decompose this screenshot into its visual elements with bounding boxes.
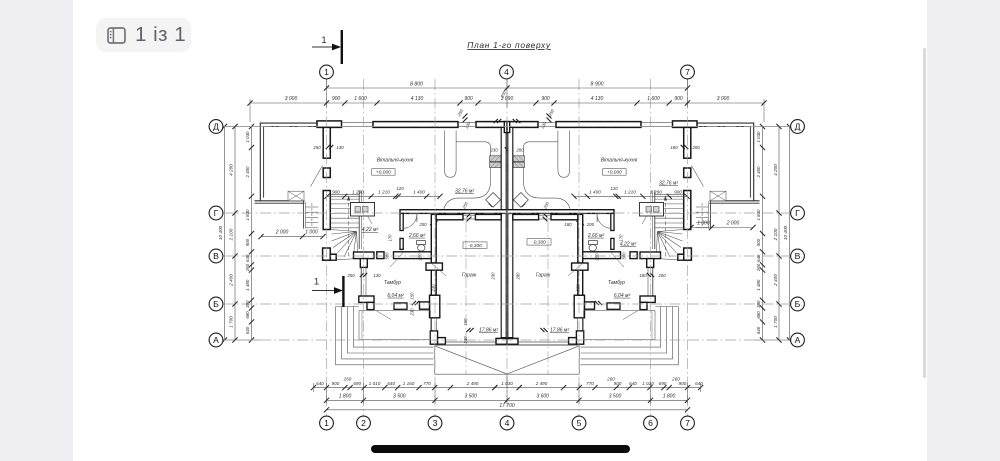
svg-text:6,04 м²: 6,04 м² <box>387 293 404 299</box>
svg-text:4: 4 <box>505 418 510 428</box>
svg-text:2 100: 2 100 <box>773 228 778 241</box>
svg-text:4 200: 4 200 <box>773 164 778 176</box>
svg-text:Г: Г <box>214 208 219 218</box>
svg-text:380: 380 <box>756 300 761 308</box>
svg-text:Гараж: Гараж <box>536 273 551 279</box>
svg-text:7: 7 <box>685 67 690 77</box>
svg-text:6,04 м²: 6,04 м² <box>614 293 631 299</box>
svg-text:4,22 м²: 4,22 м² <box>362 227 379 233</box>
svg-text:-0,300: -0,300 <box>532 240 546 246</box>
svg-text:Гараж: Гараж <box>462 273 477 279</box>
svg-text:250: 250 <box>547 108 555 118</box>
svg-text:А: А <box>795 335 801 345</box>
svg-text:640: 640 <box>387 381 395 386</box>
svg-text:250: 250 <box>456 108 464 118</box>
svg-text:32,76 м²: 32,76 м² <box>455 189 474 195</box>
svg-text:680: 680 <box>756 311 761 319</box>
svg-text:Вітальня-кухня: Вітальня-кухня <box>377 158 414 164</box>
svg-text:3 500: 3 500 <box>609 393 622 399</box>
svg-text:Г: Г <box>795 208 800 218</box>
svg-text:6: 6 <box>648 418 653 428</box>
svg-text:2 400: 2 400 <box>773 274 778 287</box>
svg-text:1: 1 <box>321 35 326 46</box>
svg-text:280: 280 <box>516 272 521 281</box>
svg-text:380: 380 <box>245 300 250 308</box>
svg-text:В: В <box>213 251 219 261</box>
svg-text:640: 640 <box>629 381 637 386</box>
svg-text:Тамбур: Тамбур <box>608 280 625 286</box>
svg-text:900: 900 <box>245 238 250 246</box>
svg-text:1 800: 1 800 <box>663 393 676 399</box>
svg-text:120: 120 <box>396 186 404 191</box>
svg-text:230: 230 <box>463 336 468 345</box>
svg-text:1 400: 1 400 <box>413 189 425 194</box>
svg-text:130: 130 <box>373 273 381 278</box>
svg-text:250: 250 <box>346 273 355 278</box>
svg-text:8 900: 8 900 <box>591 81 604 87</box>
svg-text:250: 250 <box>418 222 427 227</box>
svg-text:1 600: 1 600 <box>354 96 367 102</box>
svg-text:1 000: 1 000 <box>697 221 710 227</box>
svg-text:1 480: 1 480 <box>245 279 250 291</box>
svg-text:120: 120 <box>610 186 618 191</box>
svg-text:280: 280 <box>515 148 524 153</box>
svg-text:900: 900 <box>614 381 622 386</box>
svg-text:2 400: 2 400 <box>756 166 761 179</box>
svg-text:3 000: 3 000 <box>285 96 298 102</box>
svg-text:230: 230 <box>576 284 581 293</box>
svg-text:-0,300: -0,300 <box>468 243 482 249</box>
svg-text:130: 130 <box>464 120 472 129</box>
svg-text:900: 900 <box>332 381 340 386</box>
svg-text:2,66 м²: 2,66 м² <box>587 233 605 239</box>
svg-text:1 290: 1 290 <box>352 189 364 194</box>
svg-text:1 600: 1 600 <box>647 96 660 102</box>
svg-text:200: 200 <box>691 145 700 150</box>
svg-text:150: 150 <box>410 292 415 300</box>
svg-text:1 030: 1 030 <box>756 131 761 143</box>
svg-text:250: 250 <box>595 253 600 262</box>
svg-text:2 400: 2 400 <box>229 274 234 287</box>
svg-text:План 1-го поверху: План 1-го поверху <box>467 40 551 50</box>
svg-text:130: 130 <box>540 120 548 129</box>
svg-text:2 100: 2 100 <box>229 228 234 241</box>
svg-text:640: 640 <box>316 381 324 386</box>
svg-text:3 500: 3 500 <box>464 393 477 399</box>
svg-text:В: В <box>795 251 801 261</box>
svg-text:900: 900 <box>332 189 340 194</box>
svg-text:180: 180 <box>670 145 678 150</box>
svg-text:690: 690 <box>659 381 667 386</box>
svg-text:260: 260 <box>245 263 250 272</box>
svg-text:Д: Д <box>795 122 801 132</box>
svg-text:А: А <box>213 335 219 345</box>
svg-text:1 000: 1 000 <box>305 230 318 236</box>
svg-text:130: 130 <box>336 145 344 150</box>
svg-text:900: 900 <box>674 189 682 194</box>
svg-text:7: 7 <box>685 418 690 428</box>
svg-text:2 400: 2 400 <box>245 166 250 179</box>
svg-text:10 400: 10 400 <box>218 225 223 240</box>
svg-text:230: 230 <box>491 272 496 281</box>
svg-text:Вітальня-кухня: Вітальня-кухня <box>601 158 638 164</box>
svg-text:1 700: 1 700 <box>229 316 234 328</box>
svg-text:8 800: 8 800 <box>410 81 423 87</box>
svg-text:3 600: 3 600 <box>536 393 549 399</box>
svg-text:3 000: 3 000 <box>717 96 730 102</box>
svg-text:32,76 м²: 32,76 м² <box>659 181 678 187</box>
svg-text:Б: Б <box>795 299 801 309</box>
svg-text:17 700: 17 700 <box>499 403 515 409</box>
svg-text:500: 500 <box>622 252 627 260</box>
svg-text:250: 250 <box>418 253 423 262</box>
svg-text:180: 180 <box>639 273 647 278</box>
svg-text:640: 640 <box>756 254 761 262</box>
svg-text:4 130: 4 130 <box>591 96 604 102</box>
svg-text:170: 170 <box>619 234 624 242</box>
svg-text:2: 2 <box>361 418 366 428</box>
svg-text:1 010: 1 010 <box>642 381 654 386</box>
svg-text:5: 5 <box>577 418 582 428</box>
svg-text:3: 3 <box>433 418 438 428</box>
svg-text:640: 640 <box>756 326 761 334</box>
svg-text:Тамбур: Тамбур <box>384 280 401 286</box>
svg-text:900: 900 <box>464 96 473 102</box>
svg-text:640: 640 <box>245 326 250 334</box>
svg-text:1 030: 1 030 <box>245 131 250 143</box>
svg-text:Д: Д <box>213 122 219 132</box>
svg-text:Б: Б <box>213 299 219 309</box>
svg-text:180: 180 <box>564 222 572 227</box>
svg-text:1 290: 1 290 <box>650 189 662 194</box>
svg-text:2 490: 2 490 <box>535 381 548 386</box>
svg-text:+0,000: +0,000 <box>607 170 622 176</box>
svg-text:1 030: 1 030 <box>501 381 513 386</box>
svg-text:1 800: 1 800 <box>339 393 352 399</box>
svg-text:1: 1 <box>314 277 319 288</box>
svg-text:4,22 м²: 4,22 м² <box>620 242 637 248</box>
svg-text:3 500: 3 500 <box>393 393 406 399</box>
svg-text:17,86 м²: 17,86 м² <box>550 328 569 334</box>
svg-text:200: 200 <box>657 273 666 278</box>
svg-text:900: 900 <box>541 96 550 102</box>
svg-text:+0,000: +0,000 <box>376 170 391 176</box>
svg-text:1 480: 1 480 <box>756 279 761 291</box>
svg-text:150: 150 <box>463 318 468 326</box>
svg-text:900: 900 <box>679 381 687 386</box>
svg-text:1 210: 1 210 <box>624 189 636 194</box>
svg-text:1 830: 1 830 <box>756 209 761 221</box>
svg-text:2 490: 2 490 <box>466 381 479 386</box>
svg-text:900: 900 <box>332 96 341 102</box>
svg-text:260: 260 <box>756 263 761 272</box>
svg-text:10 400: 10 400 <box>783 225 788 240</box>
svg-text:4 130: 4 130 <box>411 96 424 102</box>
svg-text:4: 4 <box>504 67 509 77</box>
svg-text:2 000: 2 000 <box>726 221 740 227</box>
svg-text:17,86 м²: 17,86 м² <box>479 328 498 334</box>
svg-text:640: 640 <box>695 381 703 386</box>
svg-text:1 700: 1 700 <box>773 316 778 328</box>
svg-text:250: 250 <box>312 145 321 150</box>
svg-text:900: 900 <box>756 238 761 246</box>
svg-text:260: 260 <box>343 377 352 382</box>
svg-text:1 400: 1 400 <box>589 189 601 194</box>
svg-text:640: 640 <box>245 254 250 262</box>
svg-text:2,66 м²: 2,66 м² <box>408 233 426 239</box>
svg-text:680: 680 <box>245 311 250 319</box>
svg-text:2 000: 2 000 <box>275 230 289 236</box>
svg-text:1 830: 1 830 <box>245 209 250 221</box>
svg-text:170: 170 <box>388 234 393 242</box>
svg-text:230: 230 <box>410 308 415 317</box>
svg-text:200: 200 <box>586 222 595 227</box>
svg-text:900: 900 <box>674 96 683 102</box>
svg-text:1 160: 1 160 <box>403 381 415 386</box>
svg-text:770: 770 <box>586 381 594 386</box>
svg-text:1 010: 1 010 <box>369 381 381 386</box>
svg-text:230: 230 <box>489 148 498 153</box>
svg-text:1: 1 <box>324 418 329 428</box>
svg-text:1 210: 1 210 <box>378 189 390 194</box>
svg-text:1: 1 <box>324 67 329 77</box>
svg-text:230: 230 <box>431 284 436 293</box>
svg-text:500: 500 <box>385 252 390 260</box>
svg-text:770: 770 <box>423 381 431 386</box>
svg-text:690: 690 <box>353 381 361 386</box>
svg-text:4 200: 4 200 <box>229 164 234 176</box>
